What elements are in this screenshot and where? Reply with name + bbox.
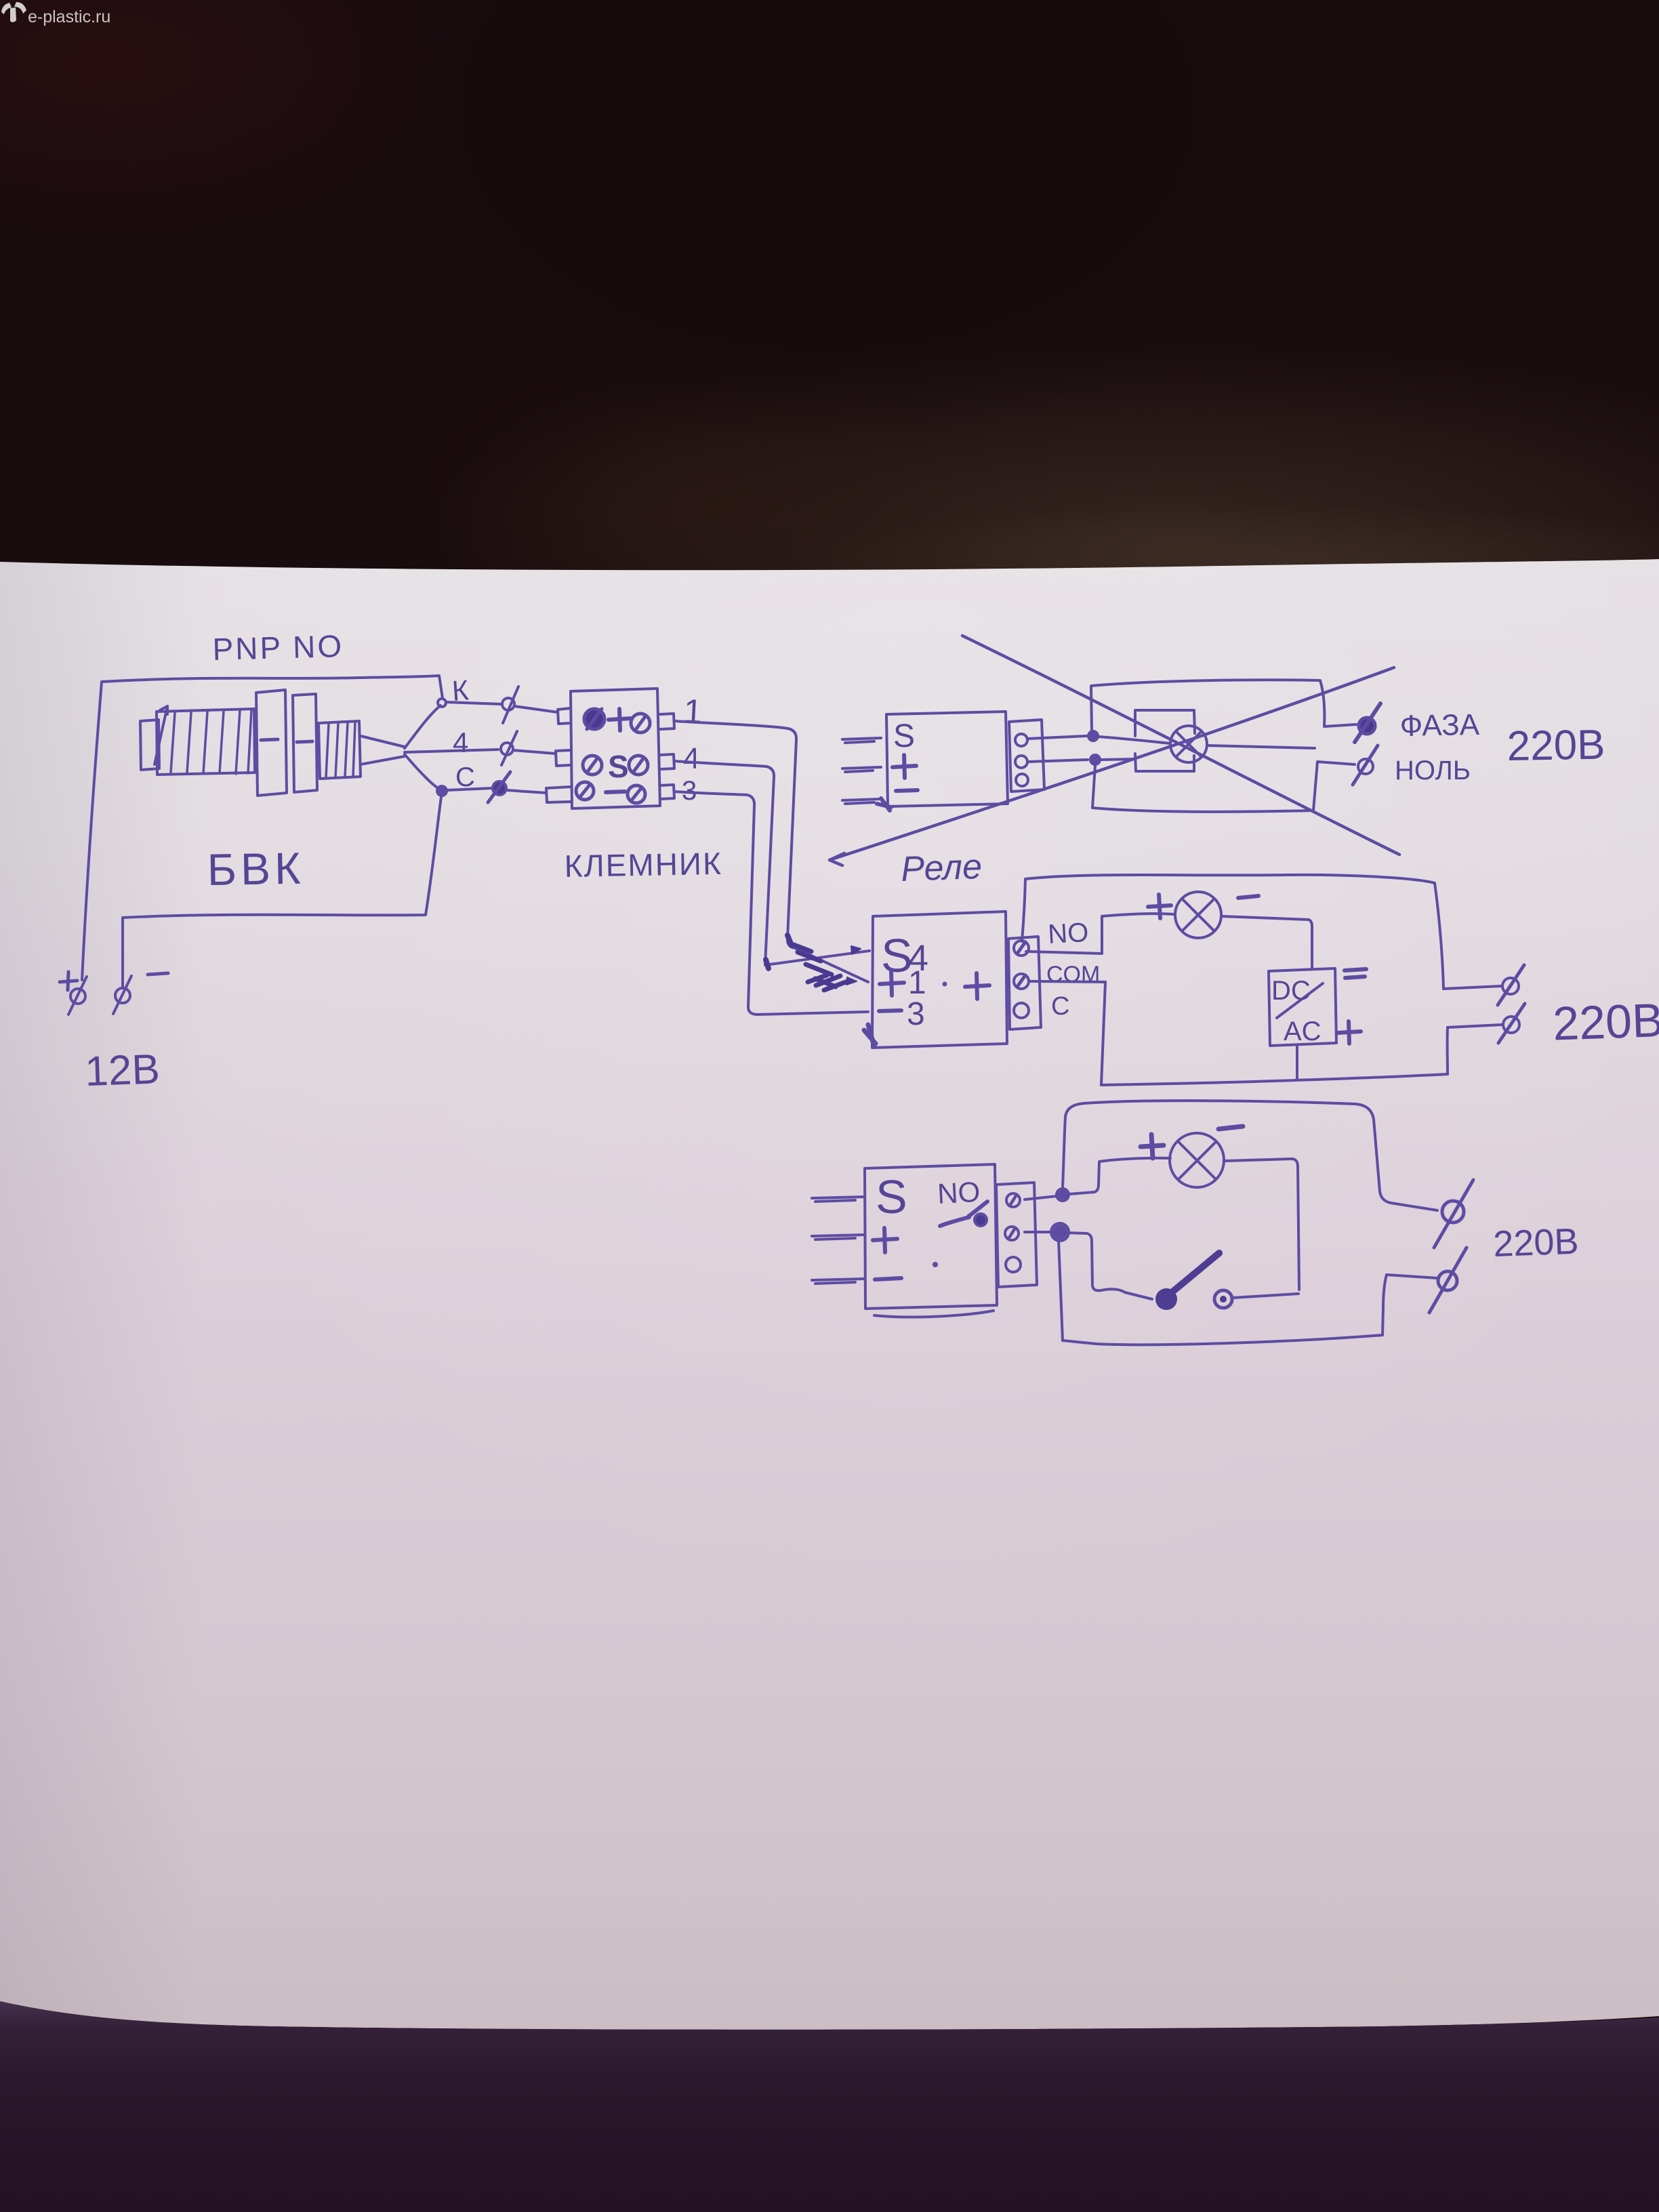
- wire lamp 3 right: [1225, 1159, 1299, 1290]
- terminal block left tab 2: [556, 750, 571, 766]
- screw -L: [576, 782, 594, 800]
- label − DC out: [1345, 969, 1366, 978]
- wire screw1 to junction D: [1025, 1196, 1057, 1200]
- svg-text:S: S: [893, 718, 915, 754]
- terminal block right tab 3: [660, 785, 674, 799]
- wire relay1 top to junction A: [1028, 736, 1086, 739]
- label + (block): [609, 709, 631, 731]
- relay 2 dot mark: [943, 982, 947, 987]
- svg-text:220В: 220В: [1552, 994, 1659, 1050]
- lamp 2 label +: [1148, 895, 1171, 918]
- label + DC out: [1338, 1021, 1361, 1044]
- connector С: [447, 772, 546, 802]
- lamp 3: [1170, 1133, 1224, 1187]
- paper sheet: [0, 559, 1659, 2030]
- terminal НОЛЬ: [1353, 745, 1378, 785]
- watermark logo: [1, 2, 26, 22]
- wire COM to loop: [1029, 981, 1105, 982]
- svg-text:COM: COM: [1046, 962, 1100, 987]
- sensor nut mark 2: [297, 741, 312, 742]
- relay 3 dot mark: [933, 1262, 938, 1267]
- relay 3 label +: [873, 1228, 897, 1252]
- svg-text:4: 4: [453, 726, 468, 758]
- relay 3 pin stub S: [812, 1197, 865, 1202]
- switch branch wire: [1066, 1233, 1152, 1299]
- svg-text:1: 1: [682, 692, 703, 731]
- wire +12V positive to sensor loop top: [82, 676, 443, 980]
- wire junction B to inner box: [1101, 759, 1134, 760]
- junction A: [1088, 731, 1098, 741]
- wire 3 from clemnik (S-bend): [674, 792, 868, 1015]
- relay 2 screw C: [1014, 1003, 1029, 1018]
- lamp 2: [1175, 892, 1221, 938]
- sensor barrel hatching: [171, 710, 251, 774]
- cross-out line 2 with arrow: [829, 668, 1394, 865]
- background darker block center top: [312, 0, 1342, 447]
- relay 1 label −: [896, 790, 918, 791]
- svg-text:C: C: [455, 762, 475, 792]
- relay 3 screw 1: [1006, 1193, 1020, 1207]
- sensor threaded barrel: [157, 709, 255, 775]
- relay 3 terminal strip: [996, 1183, 1037, 1287]
- wire junction A to lamp 1: [1099, 737, 1170, 743]
- relay 2 screw NO: [1014, 941, 1029, 956]
- dark background bottom band: [0, 2001, 1659, 2212]
- svg-text:НОЛЬ: НОЛЬ: [1395, 756, 1471, 785]
- node C junction: [437, 786, 447, 796]
- wire to 220 terminal top: [1443, 986, 1502, 989]
- relay 2 corner scribble: [864, 1025, 876, 1046]
- sensor nut mark 1: [261, 739, 278, 740]
- relay 2 body: [872, 912, 1007, 1048]
- cross-out line 1: [962, 636, 1399, 855]
- terminal 220 bottom: [1498, 1004, 1525, 1043]
- background brown patch center: [413, 352, 996, 651]
- wire lamp 1 to right edge: [1207, 745, 1315, 748]
- loop 3 left vertical: [1059, 1240, 1063, 1340]
- lamp 3 label −: [1218, 1126, 1243, 1129]
- terminal block right tab 2: [660, 754, 674, 769]
- screw -R: [628, 785, 645, 803]
- svg-text:S: S: [876, 1170, 907, 1223]
- svg-text:AC: AC: [1284, 1017, 1322, 1046]
- sensor БВК body: end cap: [140, 720, 159, 770]
- relay 3 body: [865, 1164, 997, 1309]
- loop 2 top edge: [1025, 875, 1435, 883]
- svg-text:К: К: [451, 674, 470, 707]
- lamp 1 inner box: [1135, 710, 1195, 771]
- relay 1 screw 1: [1015, 734, 1027, 746]
- terminal block right tab 1: [660, 714, 674, 729]
- svg-text:220В: 220В: [1507, 721, 1605, 770]
- wire screw2 to junction E: [1025, 1231, 1053, 1233]
- svg-text:NO: NO: [1047, 918, 1089, 949]
- lamp 2 branch left: [1026, 914, 1173, 954]
- svg-text:NO: NO: [937, 1176, 981, 1210]
- relay 1 (crossed out) body: [886, 712, 1008, 806]
- crossover scribble: [766, 935, 861, 990]
- loop 2 right edge: [1435, 883, 1443, 989]
- relay 2 terminal strip: [1008, 937, 1041, 1029]
- sensor rear hatching: [326, 722, 355, 777]
- svg-text:220В: 220В: [1492, 1221, 1579, 1265]
- screw +R: [631, 714, 650, 733]
- wire relay1 mid to junction B: [1028, 760, 1088, 762]
- switch lever: [1168, 1253, 1219, 1296]
- svg-text:PNP NO: PNP NO: [212, 628, 344, 667]
- wire switch to lamp branch vertical: [1233, 1294, 1298, 1298]
- svg-text:ФАЗА: ФАЗА: [1399, 708, 1480, 743]
- node K junction: [438, 699, 446, 707]
- wire lamp 2 to DC/AC: [1221, 916, 1312, 969]
- sensor arrow: [155, 706, 167, 764]
- dark background top band: [0, 0, 1659, 610]
- background lighter brown above paper right: [420, 339, 1659, 732]
- terminal block КЛЕМНИК body: [571, 689, 660, 808]
- switch pivot: [1155, 1288, 1177, 1310]
- relay 2 label + (row2): [880, 970, 904, 996]
- relay 3 pin stub +: [812, 1235, 865, 1240]
- sensor nut block 1: [256, 690, 287, 796]
- svg-text:DC: DC: [1271, 976, 1311, 1006]
- DC/AC slash: [1277, 983, 1323, 1018]
- lamp circuit 1 outer loop lower: [1092, 762, 1355, 812]
- svg-text:4: 4: [683, 742, 699, 775]
- screw SL: [583, 756, 602, 775]
- sensor rear hatched block: [319, 721, 361, 779]
- relay 3 screw 2: [1005, 1227, 1019, 1240]
- loop 3 riser top edge and right edge: [1063, 1101, 1437, 1210]
- relay 1 label +: [893, 755, 916, 778]
- wire С from fan to node: [405, 754, 439, 789]
- wire 4 from clemnik (S-bend): [674, 761, 869, 965]
- sensor cable taper: [361, 736, 405, 764]
- lamp circuit 1 outer loop upper: [1091, 680, 1356, 731]
- connector К: [446, 687, 558, 723]
- relay 2 screw COM: [1014, 974, 1029, 989]
- terminal 220 phase circuit 3: [1434, 1180, 1473, 1248]
- junction D: [1057, 1189, 1069, 1201]
- relay 1 screw 3: [1016, 774, 1028, 786]
- sensor nut block 2: [293, 694, 317, 792]
- loop 3 bottom edge: [1063, 1335, 1382, 1345]
- svg-text:S: S: [608, 749, 629, 784]
- wire to 220 terminal bottom: [1448, 1025, 1502, 1027]
- wire Ч from fan: [405, 750, 498, 752]
- switch contact: [1214, 1290, 1232, 1308]
- relay 3 label −: [875, 1278, 901, 1279]
- wire NO riser: [1022, 879, 1025, 941]
- relay 2 label − (row3): [879, 1010, 901, 1011]
- lamp 2 label −: [1238, 896, 1258, 898]
- relay 1 terminal strip: [1009, 720, 1044, 792]
- relay 1 screw 2: [1015, 756, 1027, 768]
- screw +L: [584, 709, 605, 729]
- junction E: [1051, 1223, 1069, 1241]
- svg-text:C: C: [1051, 992, 1069, 1021]
- relay 3 switch glyph: [940, 1202, 987, 1226]
- svg-text:БВК: БВК: [207, 843, 305, 895]
- svg-text:e-plastic.ru: e-plastic.ru: [28, 7, 110, 26]
- background red tint top left: [0, 0, 461, 237]
- label − (block): [606, 792, 625, 792]
- terminal block left tab 3: [546, 787, 571, 802]
- connector Ч: [501, 731, 556, 765]
- relay 3 pin stub −: [812, 1279, 865, 1284]
- DC/AC converter box: [1269, 968, 1336, 1046]
- terminal ФАЗА: [1355, 703, 1380, 742]
- loop 2 bottom right vertical: [1446, 1027, 1449, 1074]
- loop 2 bottom edge: [1101, 1074, 1448, 1085]
- terminal 12V positive: [60, 972, 87, 1015]
- terminal 220 top: [1498, 965, 1524, 1005]
- svg-text:Реле: Реле: [900, 847, 982, 889]
- relay 1 pin stub +: [842, 767, 881, 772]
- relay 1 corner scribble: [877, 798, 891, 811]
- svg-text:3: 3: [907, 996, 925, 1032]
- wire negative to sensor loop bottom: [123, 797, 441, 987]
- terminal 12V negative: [113, 973, 168, 1014]
- relay 1 pin stub −: [842, 799, 881, 804]
- svg-text:12В: 12В: [84, 1046, 161, 1095]
- terminal 220 neutral circuit 3: [1429, 1248, 1467, 1313]
- relay 3 bottom double stroke: [874, 1311, 994, 1317]
- lamp 1: [1170, 726, 1207, 762]
- background light strip above paper right: [786, 505, 1659, 613]
- screw SR: [629, 756, 648, 775]
- svg-text:КЛЕМНИК: КЛЕМНИК: [564, 846, 722, 884]
- wire DC/AC to bottom edge: [1296, 1046, 1298, 1079]
- relay 1 pin stub S: [842, 738, 881, 743]
- relay 3 screw 3: [1006, 1257, 1021, 1272]
- wire 1 from clemnik (S-bend): [674, 721, 868, 982]
- relay 2 label + (right): [965, 973, 989, 999]
- wire К from fan to node: [405, 705, 441, 748]
- wire neutral to loop 3: [1382, 1275, 1438, 1335]
- lamp 3 label +: [1141, 1134, 1164, 1158]
- lamp 3 branch: [1069, 1158, 1170, 1194]
- terminal block left tab 1: [558, 708, 571, 724]
- loop 2 left vertical COM: [1101, 983, 1105, 1085]
- junction B: [1090, 755, 1100, 764]
